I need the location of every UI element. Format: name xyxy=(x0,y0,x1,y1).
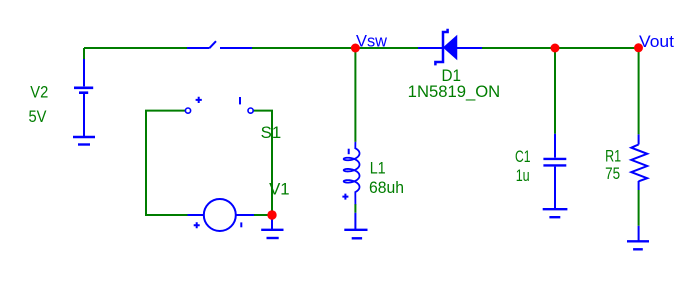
svg-text:1N5819_ON: 1N5819_ON xyxy=(408,83,501,101)
svg-text:68uh: 68uh xyxy=(369,179,404,197)
svg-text:1u: 1u xyxy=(516,167,530,185)
svg-text:Vsw: Vsw xyxy=(356,33,387,51)
svg-text:C1: C1 xyxy=(515,148,531,166)
svg-text:V2: V2 xyxy=(30,84,48,102)
svg-text:L1: L1 xyxy=(370,159,386,177)
svg-text:Vout: Vout xyxy=(639,33,675,51)
svg-text:V1: V1 xyxy=(269,181,290,199)
svg-text:S1: S1 xyxy=(261,124,282,142)
svg-text:75: 75 xyxy=(605,165,620,183)
svg-text:5V: 5V xyxy=(29,108,47,126)
svg-text:R1: R1 xyxy=(605,148,621,166)
